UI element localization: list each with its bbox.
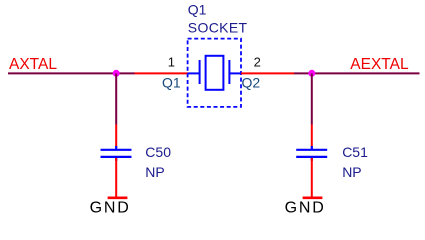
svg-text:C51: C51 xyxy=(342,144,368,160)
capacitor C51 xyxy=(296,146,327,161)
wire AEXTAL horizontal xyxy=(294,72,420,74)
socket U1 dashed body xyxy=(188,39,241,107)
ground left symbol xyxy=(108,197,128,200)
capacitor C51 pin 2 xyxy=(311,158,313,198)
svg-text:AEXTAL: AEXTAL xyxy=(350,56,409,73)
svg-text:Q1: Q1 xyxy=(162,75,181,91)
svg-text:Q2: Q2 xyxy=(242,75,261,91)
junction right xyxy=(308,70,315,77)
svg-text:2: 2 xyxy=(254,55,261,70)
junction left xyxy=(113,70,120,77)
pin 1 of socket Q1 xyxy=(135,72,189,74)
svg-text:NP: NP xyxy=(145,164,164,180)
capacitor C50 pin 1 xyxy=(115,125,117,148)
svg-text:NP: NP xyxy=(342,164,361,180)
wire right vertical xyxy=(311,73,313,124)
ground right symbol xyxy=(303,197,323,200)
svg-text:SOCKET: SOCKET xyxy=(188,19,248,35)
svg-text:C50: C50 xyxy=(145,144,171,160)
svg-text:Q1: Q1 xyxy=(188,1,207,17)
svg-text:AXTAL: AXTAL xyxy=(9,56,57,73)
svg-text:1: 1 xyxy=(168,55,175,70)
svg-text:GND: GND xyxy=(285,199,326,216)
capacitor C50 pin 2 xyxy=(115,158,117,198)
wire AXTAL horizontal xyxy=(8,72,135,74)
wire left vertical xyxy=(115,73,117,124)
capacitor C50 xyxy=(101,146,132,161)
svg-text:GND: GND xyxy=(90,199,131,216)
capacitor C51 pin 1 xyxy=(311,125,313,148)
crystal Y1 xyxy=(188,56,241,90)
pin 2 of socket Q1 xyxy=(241,72,294,74)
